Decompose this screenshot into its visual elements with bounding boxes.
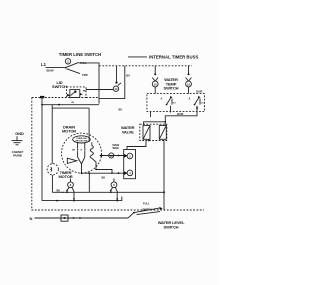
svg-text:R: R (81, 150, 83, 152)
connector block (124, 150, 136, 179)
wire lid switch output (86, 89, 113, 91)
terminal 4 (124, 170, 133, 176)
svg-text:EMPTY: EMPTY (143, 208, 152, 212)
wire bus drop to node 19 (186, 66, 192, 81)
svg-text:4: 4 (129, 171, 131, 175)
svg-text:8: 8 (70, 183, 72, 187)
drain motor start winding coil (90, 142, 113, 174)
wire lid circuit bottom (41, 104, 99, 106)
svg-text:6: 6 (113, 183, 115, 187)
wire motor bottom to bus1 (89, 172, 91, 192)
svg-text:19: 19 (187, 82, 190, 86)
drain motor internal contacts (67, 142, 85, 173)
cabinet boundary (dashed) (32, 98, 204, 211)
label MAIN WDG (113, 143, 120, 150)
wire node 19 into temp box (188, 87, 190, 94)
svg-text:3: 3 (67, 60, 69, 64)
svg-text:BK/W: BK/W (47, 69, 54, 73)
timer motor M2 (dashed circle) (47, 164, 58, 175)
wire motor bottom to connector (81, 172, 124, 174)
svg-text:SWITCH: SWITCH (52, 84, 67, 89)
wire connector top to valve (127, 141, 146, 150)
wire drain feed branch (52, 105, 89, 108)
wire rail C to timer motor (51, 108, 53, 164)
wire switch to bus (79, 63, 99, 104)
svg-text:FULL: FULL (143, 202, 150, 206)
svg-text:A: A (161, 97, 163, 101)
wire bus drop to node 14 (115, 66, 121, 86)
svg-text:2: 2 (129, 154, 131, 158)
valve solenoid 1 (143, 125, 150, 139)
drain motor label (62, 124, 76, 133)
valve solenoid 2 (159, 125, 166, 139)
node 10 circle (152, 81, 158, 87)
node 16 circle (109, 153, 114, 158)
temp switch contact B (189, 96, 205, 106)
ground GND (12, 131, 24, 157)
svg-text:TMR: TMR (82, 73, 88, 77)
svg-text:INTERNAL TIMER BUSS: INTERNAL TIMER BUSS (149, 54, 198, 59)
lid switch contacts (67, 90, 87, 105)
node T1 circle (68, 179, 74, 188)
timer line switch SW1 (65, 61, 88, 77)
wire bus drop to node 10 (152, 66, 158, 81)
svg-text:CO: CO (201, 103, 204, 105)
node T1 legs (66, 187, 75, 201)
lid switch label (52, 80, 67, 89)
water valve box (dashed) (140, 124, 167, 140)
water level switch SW3 (128, 202, 163, 219)
wire temp box stub (150, 112, 152, 117)
svg-text:GND: GND (15, 131, 24, 136)
svg-text:VALVE: VALVE (122, 129, 134, 134)
svg-text:WDG: WDG (113, 146, 119, 150)
drain motor M1 (dashed circle) (62, 133, 102, 173)
svg-text:CO: CO (173, 103, 176, 105)
timer motor label (58, 170, 72, 179)
svg-text:CABINET: CABINET (12, 150, 24, 154)
water valve label (121, 125, 135, 134)
svg-text:MOTOR: MOTOR (62, 128, 76, 133)
svg-text:BK: BK (102, 175, 106, 179)
wire rail B with cabinet tab (40, 96, 44, 201)
svg-text:A: A (189, 97, 191, 101)
svg-text:BU/R: BU/R (196, 90, 202, 94)
wire motor to connector node 16 (101, 155, 123, 157)
wire N line (35, 215, 129, 221)
label BK bus (57, 189, 65, 193)
water temp switch box (dashed) (147, 94, 205, 112)
temp switch contact A (161, 96, 177, 106)
lid switch box (dashed) (67, 87, 87, 98)
water level switch label (158, 220, 185, 229)
svg-text:MOTOR: MOTOR (58, 174, 72, 179)
node 3 (timer terminal circle) (65, 59, 70, 64)
svg-text:BK: BK (72, 150, 75, 152)
wire valve to water level switch (148, 140, 165, 210)
svg-text:N: N (30, 216, 33, 221)
bus wire 1 (52, 191, 164, 193)
terminal 2 (124, 153, 133, 159)
wire temp box right to valve solenoids BU/R (144, 106, 199, 126)
svg-text:BU/R: BU/R (177, 112, 183, 116)
svg-text:BK: BK (72, 102, 75, 104)
wire timer motor to bus1 (51, 175, 53, 192)
svg-text:BU: BU (126, 74, 130, 78)
svg-text:TIMER LINE SWITCH: TIMER LINE SWITCH (59, 52, 102, 57)
wire L1 lead BK/W (46, 68, 65, 73)
wire bus drop BU (99, 66, 130, 112)
water temp switch label (164, 77, 179, 91)
overload protector (73, 136, 91, 143)
node 14 (timer terminal circle) (113, 86, 118, 91)
label INTERNAL TIMER BUSS (128, 54, 198, 59)
svg-text:BU: BU (119, 108, 123, 112)
wire drain motor top feed (88, 108, 90, 142)
svg-text:10: 10 (154, 82, 157, 86)
wire node 10 into temp box (154, 87, 156, 94)
svg-text:PROTECTOR: PROTECTOR (76, 140, 88, 142)
svg-text:SWITCH: SWITCH (164, 86, 179, 91)
node T2 circle (111, 179, 117, 188)
svg-text:SWITCH: SWITCH (164, 224, 179, 229)
svg-text:L1: L1 (41, 62, 47, 67)
bus wire 2 (42, 197, 122, 202)
internal timer buss (dashed) (99, 65, 192, 67)
node T2 legs (110, 187, 118, 201)
node 19 circle (186, 81, 192, 87)
motor right exit contact arrow (99, 154, 102, 157)
svg-text:FRAME: FRAME (13, 153, 22, 157)
